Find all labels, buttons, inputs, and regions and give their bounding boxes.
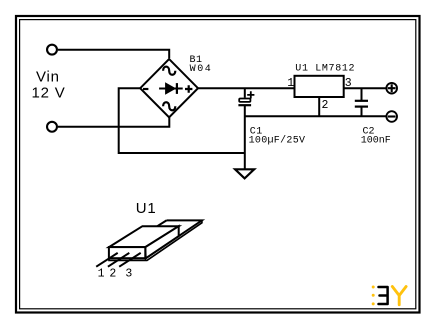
output terminal plus xyxy=(386,83,397,94)
bridge diode xyxy=(159,83,183,94)
svg-text:3: 3 xyxy=(125,267,132,280)
svg-text:100µF/25V: 100µF/25V xyxy=(249,134,306,146)
wire bottom input to bridge AC2 xyxy=(58,118,169,127)
svg-text:100nF: 100nF xyxy=(361,135,391,146)
package body front face xyxy=(109,247,145,258)
svg-text:2: 2 xyxy=(109,267,116,280)
wire regulator output to plus terminal xyxy=(344,87,387,89)
svg-text:1: 1 xyxy=(98,267,105,280)
C1 plus mark xyxy=(247,91,254,98)
svg-text:1: 1 xyxy=(287,77,294,90)
svg-text:3: 3 xyxy=(345,77,352,90)
regulator U1 LM7812 xyxy=(295,76,344,97)
package pin 3 xyxy=(119,253,141,267)
package pin 1 xyxy=(96,253,118,267)
svg-text:2: 2 xyxy=(322,99,329,112)
wire bottom rail C1 to minus terminal xyxy=(245,115,387,117)
svg-text:Vin: Vin xyxy=(36,69,60,86)
svg-text:W04: W04 xyxy=(190,64,213,75)
bridge minus mark xyxy=(143,88,148,90)
wire bridge minus to ground rail xyxy=(119,88,245,153)
capacitor C2 xyxy=(355,88,368,116)
label C1 value xyxy=(249,127,306,147)
bridge AC tilde top xyxy=(163,67,175,75)
logo reversed E xyxy=(379,287,388,304)
input terminal bottom xyxy=(47,122,57,132)
wire regulator pin2 stub xyxy=(318,97,320,116)
bridge AC tilde bottom xyxy=(163,102,175,110)
bridge rectifier B1 xyxy=(140,59,198,117)
package pin 2 xyxy=(108,253,129,267)
logo xyxy=(372,286,406,306)
output terminal minus xyxy=(386,111,397,122)
logo dots xyxy=(372,286,375,306)
package body right face xyxy=(145,226,178,258)
svg-text:U1: U1 xyxy=(136,200,157,217)
label C2 value xyxy=(361,127,391,147)
capacitor C1 xyxy=(238,88,254,169)
node Vin label xyxy=(32,69,66,102)
wire bridge plus to regulator input xyxy=(198,87,295,89)
logo Y xyxy=(392,287,406,305)
svg-text:12 V: 12 V xyxy=(32,85,66,102)
U1 package drawing xyxy=(96,220,202,280)
package pin labels xyxy=(98,267,133,280)
input terminal top xyxy=(47,45,57,55)
wire top input to bridge AC1 xyxy=(58,50,169,59)
label B1 W04 xyxy=(190,55,213,75)
svg-text:U1 LM7812: U1 LM7812 xyxy=(295,63,355,74)
ground xyxy=(235,169,254,178)
bridge plus mark xyxy=(185,85,192,92)
package tab plate xyxy=(109,220,202,260)
package body top face xyxy=(109,226,179,247)
